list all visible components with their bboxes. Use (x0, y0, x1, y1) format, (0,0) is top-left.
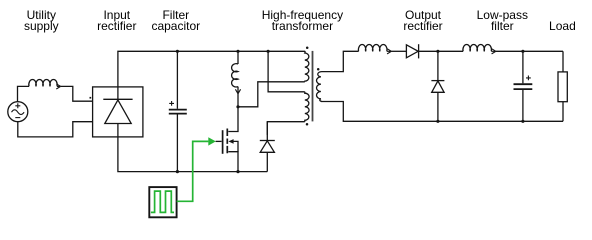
label Input rectifier (97, 8, 136, 33)
gate drive wire (green) (177, 141, 209, 201)
node bottom rail C1 (176, 170, 179, 173)
AC source V1 (8, 102, 28, 122)
inductor Lm (magnetizing) (232, 51, 241, 107)
wire bridge top output to rail (118, 51, 305, 87)
svg-text:rectifier: rectifier (403, 19, 442, 33)
label Filter capacitor (151, 8, 200, 33)
wire L1 to bridge upper input (61, 86, 93, 101)
node source bottom rail (236, 170, 239, 173)
input rectifier bridge U1 box (93, 87, 143, 137)
arrow on L2 (387, 49, 392, 54)
node freewheel bottom (436, 120, 439, 123)
wire L3 to load (496, 50, 563, 52)
svg-text:Load: Load (549, 19, 576, 33)
svg-text:rectifier: rectifier (97, 19, 136, 33)
wire source top (18, 86, 30, 101)
svg-text:transformer: transformer (272, 19, 333, 33)
node top rail Lm (236, 50, 239, 53)
phase dot secondary (317, 68, 320, 71)
transformer T1 primary winding (upper) (305, 51, 309, 82)
phase dot reset winding (306, 123, 309, 126)
polarity mark near bridge input (90, 97, 92, 99)
label Output rectifier (403, 8, 442, 33)
node drain junction (236, 105, 239, 108)
label Utility supply (24, 8, 59, 33)
transformer T1 secondary winding (317, 72, 322, 102)
wire secondary top lead (322, 51, 359, 71)
inductor L1 (29, 80, 57, 87)
node freewheel top (436, 50, 439, 53)
gate drive arrow (green) (208, 137, 216, 145)
label Low-pass filter (477, 8, 528, 33)
transformer T1 reset winding (lower) (305, 92, 309, 122)
wire D1 to L3 (419, 50, 464, 52)
node output cap bottom (521, 120, 524, 123)
wire bridge bottom output to rail (118, 137, 267, 172)
pulse generator box (149, 187, 176, 217)
wire secondary bottom lead and rail (321, 102, 563, 122)
svg-text:supply: supply (24, 19, 59, 33)
svg-text:filter: filter (491, 19, 514, 33)
diode DR (reset) (260, 122, 275, 172)
node output cap top (521, 50, 524, 53)
gate drive square wave (151, 191, 174, 212)
wire source bottom to bridge lower input (18, 122, 93, 137)
phase dot primary (306, 47, 309, 50)
bridge diode symbol (103, 87, 132, 137)
arrow on L3 (491, 49, 496, 54)
diode D1 (output rectifier) (406, 44, 418, 58)
inductor L3 (low-pass filter) (463, 45, 492, 52)
diode D2 (freewheel) (431, 51, 444, 121)
capacitor C2 (output) (514, 51, 533, 121)
label Load (549, 19, 576, 33)
label High-frequency transformer (262, 8, 343, 33)
svg-text:capacitor: capacitor (151, 19, 200, 33)
wire reset winding bottom to diode DR (267, 122, 305, 135)
capacitor C1 (filter capacitor) (169, 51, 187, 171)
node top rail reset branch (267, 50, 270, 53)
node top rail C1 (176, 50, 179, 53)
wire rail to reset winding top (268, 51, 305, 92)
arrow on L1 (56, 84, 60, 89)
transformer T1 core (312, 51, 314, 122)
load R1 (558, 51, 567, 121)
wire L2 to diode D1 (391, 50, 406, 52)
inductor L2 (358, 45, 387, 52)
wire drain node to primary winding bottom (238, 82, 305, 107)
MOSFET Q1 (216, 107, 238, 172)
